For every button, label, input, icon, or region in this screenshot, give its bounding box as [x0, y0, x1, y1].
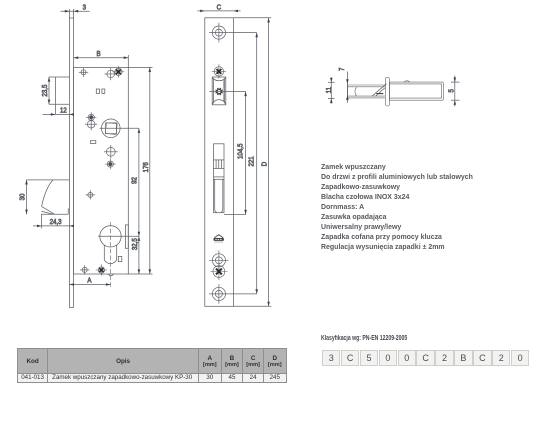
- svg-text:3: 3: [83, 4, 87, 11]
- hole below follower: [104, 145, 118, 159]
- hole top-middle: [105, 68, 117, 80]
- svg-text:7: 7: [339, 67, 346, 71]
- centerline of adjustment screw: [209, 91, 245, 93]
- svg-text:5: 5: [448, 89, 455, 93]
- phillips screw lower: [210, 263, 227, 280]
- svg-text:104,5: 104,5: [237, 143, 244, 159]
- dimension 7: [339, 67, 349, 103]
- svg-text:221: 221: [248, 156, 255, 167]
- dimension 176 (case height): [128, 67, 152, 274]
- pair of small square openings: [96, 89, 105, 93]
- dimension 23,5: [42, 77, 70, 104]
- svg-text:23,5: 23,5: [42, 84, 49, 96]
- slot on case right edge: [125, 225, 128, 248]
- hole mid-left: [86, 190, 95, 199]
- svg-text:D: D: [261, 162, 268, 167]
- cylinder horizontal centerline: [98, 235, 139, 237]
- notch in case bottom edge: [108, 274, 113, 276]
- dimension 221: [248, 33, 258, 294]
- hole above follower: [85, 118, 97, 130]
- dimension 5: [448, 76, 460, 107]
- dimension C (faceplate width): [198, 4, 241, 12]
- latch adjustment screw: [216, 88, 223, 95]
- dimension 11: [326, 78, 335, 104]
- cylinder dashed centerline: [110, 222, 112, 288]
- svg-text:12: 12: [60, 107, 67, 114]
- dimension 32,5: [132, 236, 140, 274]
- svg-text:30: 30: [19, 193, 26, 200]
- classification code boxes: [322, 350, 530, 366]
- svg-text:A: A: [87, 277, 92, 284]
- front faceplate outline (middle drawing): [205, 18, 234, 307]
- dimension B (case width): [74, 51, 129, 68]
- feature list: [321, 162, 473, 251]
- dimension 24,3: [33, 219, 74, 228]
- screw below follower: [105, 159, 115, 169]
- svg-text:92: 92: [131, 177, 138, 184]
- svg-text:C: C: [217, 4, 222, 11]
- dimension 3 (faceplate thickness): [61, 4, 90, 12]
- latch side view: head: [348, 85, 385, 98]
- dimension D (faceplate length): [233, 18, 271, 307]
- latch side view: lock body tube: [390, 81, 444, 101]
- latch side view: bevel: [372, 84, 387, 97]
- latch side view: faceplate bar: [385, 77, 389, 106]
- follower centerline: [100, 127, 139, 129]
- extension line latch tip: [41, 214, 43, 228]
- faceplate side view (left drawing): [69, 9, 73, 308]
- svg-text:11: 11: [326, 87, 333, 94]
- extension line from top hole: [229, 32, 257, 34]
- phillips screw above latch opening: [212, 64, 226, 78]
- extension line from deadbolt end: [224, 214, 246, 216]
- brand logo on faceplate: [214, 235, 224, 242]
- lock case body outline: [74, 67, 129, 274]
- deadbolt slot in faceplate: [214, 144, 225, 213]
- hole bottom-left: [80, 265, 89, 274]
- dimension 12: [43, 107, 75, 115]
- countersunk screw hole bottom: [209, 284, 229, 304]
- classification label: [321, 335, 407, 342]
- small rectangular opening: [90, 141, 95, 144]
- dimension 104,5: [237, 92, 247, 215]
- dimension A (backset): [69, 277, 110, 285]
- dimension 30 (latch height): [19, 180, 27, 214]
- hole top-left: [79, 68, 88, 77]
- svg-text:32,5: 32,5: [132, 238, 139, 250]
- latch opening in faceplate: [212, 77, 226, 105]
- extension line from bottom hole: [229, 293, 257, 295]
- screw bottom: [96, 264, 107, 275]
- follower (square spindle hub): [102, 119, 121, 138]
- screw top-right Q: [113, 66, 125, 78]
- svg-text:B: B: [97, 51, 102, 58]
- svg-text:176: 176: [143, 162, 150, 173]
- dimension 92: [131, 128, 140, 236]
- latch bolt (protruding left): [27, 180, 70, 214]
- product table: [17, 348, 287, 383]
- cylinder fixing screw slot: [118, 256, 122, 261]
- euro profile cylinder hole: [100, 226, 121, 264]
- countersunk screw hole top: [209, 23, 229, 43]
- svg-text:24,3: 24,3: [50, 219, 62, 226]
- countersunk screw hole lower: [209, 250, 229, 270]
- screw above follower: [86, 112, 96, 122]
- extension line for 12: [54, 77, 56, 114]
